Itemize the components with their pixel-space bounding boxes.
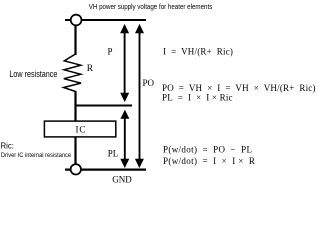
svg-text:IC: IC <box>76 124 87 134</box>
wire VH node to resistor <box>74 26 76 55</box>
node GND terminal <box>71 164 81 174</box>
svg-text:P(w/dot) = I × I × R: P(w/dot) = I × I × R <box>163 156 255 166</box>
wire top rail VH <box>65 19 146 21</box>
svg-text:Ric:: Ric: <box>1 142 14 151</box>
svg-text:PL: PL <box>108 149 119 159</box>
wire resistor to IC to GND <box>74 91 76 169</box>
svg-text:Low resistance: Low resistance <box>9 69 57 79</box>
arrow PO (dimension VH to GND) <box>135 24 144 168</box>
svg-text:P: P <box>108 47 113 57</box>
arrow P (dimension VH node to R/IC junction) <box>120 24 129 102</box>
svg-text:Driver IC internal resistance: Driver IC internal resistance <box>1 152 71 159</box>
svg-text:P(w/dot) = PO − PL: P(w/dot) = PO − PL <box>163 145 252 155</box>
svg-text:VH power supply voltage for he: VH power supply voltage for heater eleme… <box>89 2 213 11</box>
svg-text:PO: PO <box>143 78 155 88</box>
svg-text:PO = VH × I = VH × VH/: PO = VH × I = VH × VH/(R+ Ric) <box>162 83 316 93</box>
svg-text:PL = I × I × Ric: PL = I × I × Ric <box>162 93 233 103</box>
svg-text:R: R <box>87 64 94 74</box>
resistor R <box>64 54 81 92</box>
svg-text:GND: GND <box>112 175 132 185</box>
node line between R and IC <box>76 105 133 107</box>
svg-text:I = VH/(R+ Ric): I = VH/(R+ Ric) <box>163 46 233 56</box>
wire GND rail <box>65 169 146 171</box>
node VH terminal <box>71 15 82 26</box>
arrow PL (dimension R/IC junction to GND) <box>120 110 129 168</box>
IC box <box>44 121 115 137</box>
